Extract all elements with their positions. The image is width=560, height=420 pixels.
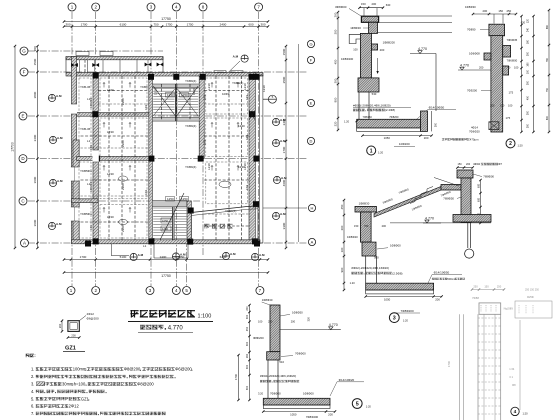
svg-text:1:20: 1:20 xyxy=(523,412,529,416)
svg-text:7Φ890: 7Φ890 xyxy=(467,28,476,32)
grid bubble 5 bottom xyxy=(183,287,191,295)
svg-text:320: 320 xyxy=(334,121,338,126)
svg-text:GZ1: GZ1 xyxy=(65,346,76,352)
grid bubble D left xyxy=(19,155,27,163)
svg-text:YKB5Φa: YKB5Φa xyxy=(80,169,92,173)
svg-text:2400: 2400 xyxy=(160,255,167,259)
svg-text:Φ14/10Φ20: Φ14/10Φ20 xyxy=(339,378,355,382)
interior beams vertical xyxy=(84,60,86,73)
GZ1 left dim xyxy=(61,321,63,332)
grid bubble E left xyxy=(19,112,27,120)
grid bubble H right xyxy=(308,204,315,211)
entrance porch below stair bay xyxy=(153,244,155,258)
grid line axis A xyxy=(28,242,307,244)
svg-text:200: 200 xyxy=(380,48,385,52)
svg-text:300: 300 xyxy=(435,122,438,127)
window boxes above wall G xyxy=(76,52,89,56)
svg-text:1:20: 1:20 xyxy=(403,319,409,323)
svg-text:470μm: 470μm xyxy=(470,137,479,141)
grid bubble E right xyxy=(307,99,314,106)
svg-text:2300: 2300 xyxy=(121,225,125,232)
svg-text:1250: 1250 xyxy=(167,93,174,97)
svg-text:750: 750 xyxy=(153,22,158,26)
stair landing upper xyxy=(152,84,199,88)
svg-text:1750: 1750 xyxy=(166,22,173,26)
svg-text:1Φ8Φ30: 1Φ8Φ30 xyxy=(359,202,370,206)
wall axis C stub xyxy=(72,199,99,203)
grid line axis 3 xyxy=(150,12,152,286)
svg-text:4Φ02: 4Φ02 xyxy=(473,162,481,166)
stair hall label xyxy=(204,224,209,229)
svg-text:500mm: 500mm xyxy=(447,277,456,281)
svg-text:1:20: 1:20 xyxy=(518,144,524,148)
svg-text:Φ8Φ200: Φ8Φ200 xyxy=(253,336,264,340)
svg-text:7Φ9200: 7Φ9200 xyxy=(467,89,477,93)
svg-text:E: E xyxy=(21,114,24,119)
svg-text:510: 510 xyxy=(279,360,284,364)
boxed labels xyxy=(166,93,175,98)
GZ1 bottom dim xyxy=(68,337,79,339)
svg-text:YKB5Φa: YKB5Φa xyxy=(80,212,92,216)
svg-text:7Φ8Φ200: 7Φ8Φ200 xyxy=(401,309,414,313)
upper flight break line xyxy=(434,178,459,187)
svg-text:7Φ88: 7Φ88 xyxy=(472,296,479,300)
svg-text:200: 200 xyxy=(33,46,37,51)
svg-text:760: 760 xyxy=(546,57,549,62)
detail 4 bubble xyxy=(511,407,519,415)
svg-text:1230: 1230 xyxy=(154,88,158,95)
svg-text:17750: 17750 xyxy=(161,17,171,21)
svg-text:200: 200 xyxy=(334,12,338,17)
svg-text:3300: 3300 xyxy=(282,222,286,229)
svg-text:1750: 1750 xyxy=(187,22,194,26)
svg-text:300: 300 xyxy=(527,80,530,85)
wall axis 8 xyxy=(199,76,204,159)
notes heading xyxy=(26,354,30,358)
svg-text:(2.4Φ8): (2.4Φ8) xyxy=(385,108,395,112)
svg-text:A.M: A.M xyxy=(57,179,63,183)
svg-text:450: 450 xyxy=(246,326,249,331)
svg-text:10Φ9: 10Φ9 xyxy=(222,92,230,96)
grid bubble C left xyxy=(19,197,27,205)
svg-text:2: 2 xyxy=(509,141,512,147)
svg-text:1250: 1250 xyxy=(162,227,169,231)
leader below wall A xyxy=(110,244,112,256)
beam bowtie marks xyxy=(71,63,78,67)
grid bubble 7 top xyxy=(255,3,263,11)
svg-text:1Φ3: 1Φ3 xyxy=(245,134,249,140)
svg-text:L230: L230 xyxy=(107,172,114,176)
svg-text:YKB9(4): YKB9(4) xyxy=(185,124,196,128)
svg-text:160: 160 xyxy=(340,247,344,252)
svg-text:300: 300 xyxy=(246,314,249,319)
svg-text:A.M: A.M xyxy=(280,212,286,216)
svg-text:L1: L1 xyxy=(143,244,147,248)
svg-text:7Φ8Φ200: 7Φ8Φ200 xyxy=(306,415,319,419)
svg-text:YKB9(4): YKB9(4) xyxy=(185,165,196,169)
svg-text:900: 900 xyxy=(334,97,338,102)
svg-text:4600: 4600 xyxy=(282,179,286,186)
hanger symbols bottom xyxy=(130,253,137,260)
svg-text:1050: 1050 xyxy=(162,219,169,223)
svg-text:1Φ3: 1Φ3 xyxy=(245,184,249,190)
svg-text:L230: L230 xyxy=(107,215,114,219)
svg-text:10Φ200: 10Φ200 xyxy=(399,142,410,146)
detail 2 section xyxy=(442,5,550,141)
svg-text:900: 900 xyxy=(340,267,344,272)
svg-text:2.: 2. xyxy=(31,374,34,379)
hanger symbols left xyxy=(48,94,55,101)
detail 2 bubble xyxy=(506,139,515,148)
svg-text:7Φ8Φ00: 7Φ8Φ00 xyxy=(270,391,281,395)
svg-text:300: 300 xyxy=(260,22,265,26)
right dimension segments xyxy=(285,46,287,248)
grid line axis C xyxy=(28,200,200,202)
plan title xyxy=(130,310,138,318)
svg-text:GZ1: GZ1 xyxy=(81,396,90,401)
stair treads upper xyxy=(153,88,174,90)
svg-text:1250: 1250 xyxy=(167,197,174,201)
svg-text:1050: 1050 xyxy=(384,136,391,140)
svg-text:Φ8: Φ8 xyxy=(512,383,516,387)
grid bubble G left xyxy=(20,47,28,55)
grid line axis 8 xyxy=(202,12,204,255)
grid bubble 1 top xyxy=(68,3,76,11)
grid line axis F xyxy=(28,71,307,73)
svg-text:660: 660 xyxy=(546,24,549,29)
svg-text:Φ7: Φ7 xyxy=(498,162,502,166)
svg-text:YKB9(4): YKB9(4) xyxy=(225,209,236,213)
columns xyxy=(93,73,99,79)
detail 3 section xyxy=(340,170,495,313)
svg-text:100: 100 xyxy=(258,320,263,324)
svg-text:150: 150 xyxy=(498,9,503,13)
svg-text:L230: L230 xyxy=(243,83,247,90)
svg-text:7Φ8Φ00: 7Φ8Φ00 xyxy=(295,352,306,356)
svg-text:4.770: 4.770 xyxy=(329,323,338,327)
left dimension overall xyxy=(14,46,16,248)
grid bubble 2 bottom xyxy=(92,287,100,295)
svg-text:250 150 250: 250 150 250 xyxy=(525,289,540,292)
grid bubble A right xyxy=(308,238,315,245)
grid bubble G right xyxy=(307,40,314,47)
svg-text:200: 200 xyxy=(424,136,429,140)
detail 1 section xyxy=(334,2,456,146)
svg-text:320: 320 xyxy=(307,317,311,322)
svg-text:150: 150 xyxy=(361,2,366,6)
svg-text:3800: 3800 xyxy=(33,91,37,98)
svg-text:Φ25Φ: Φ25Φ xyxy=(527,296,534,299)
svg-text:D: D xyxy=(310,138,313,143)
svg-text:1Φ3: 1Φ3 xyxy=(245,94,249,100)
svg-text:100: 100 xyxy=(514,66,519,70)
wall axis E segment west xyxy=(77,113,94,117)
svg-text:600: 600 xyxy=(477,197,480,202)
svg-text:250: 250 xyxy=(268,320,273,324)
svg-text:100: 100 xyxy=(527,69,530,74)
svg-text:30mm: 30mm xyxy=(62,382,74,387)
svg-text:900: 900 xyxy=(246,385,249,390)
svg-text:300: 300 xyxy=(527,110,530,115)
slab panel dashed outlines xyxy=(100,78,147,114)
svg-text:250: 250 xyxy=(506,9,511,13)
svg-text:L230: L230 xyxy=(243,163,247,170)
svg-text:A.M: A.M xyxy=(280,118,286,122)
svg-text:A.M: A.M xyxy=(280,139,286,143)
detail 3 bubble xyxy=(389,313,399,323)
svg-text:450: 450 xyxy=(340,204,344,209)
stair center beam upper xyxy=(175,84,177,121)
svg-text:A: A xyxy=(311,239,314,244)
svg-text:7Φ8150: 7Φ8150 xyxy=(363,115,373,119)
grid line axis 2 xyxy=(95,12,97,286)
bottom dimension overall xyxy=(64,272,268,274)
wall G end return xyxy=(162,57,164,73)
grid line axis H right xyxy=(263,207,307,209)
grid bubble 8 top xyxy=(199,3,207,11)
svg-text:250: 250 xyxy=(473,285,478,289)
svg-text:7.: 7. xyxy=(31,411,34,416)
svg-text:200: 200 xyxy=(382,224,387,228)
svg-text:200: 200 xyxy=(246,306,249,311)
svg-text:200: 200 xyxy=(435,298,440,302)
svg-text:A.M: A.M xyxy=(138,253,144,257)
svg-text:600: 600 xyxy=(248,22,253,26)
svg-text:Φ6@200: Φ6@200 xyxy=(175,367,192,372)
svg-text:2300: 2300 xyxy=(121,183,125,190)
svg-text:A: A xyxy=(23,241,26,246)
svg-text:3.20: 3.20 xyxy=(258,391,264,395)
svg-text:100: 100 xyxy=(500,103,505,107)
svg-text:YKB-36: YKB-36 xyxy=(80,127,91,131)
svg-text:200: 200 xyxy=(328,412,333,416)
svg-text:300: 300 xyxy=(246,364,249,369)
svg-text:450: 450 xyxy=(334,59,338,64)
svg-text:100: 100 xyxy=(353,48,358,52)
svg-text:630: 630 xyxy=(386,3,391,7)
svg-text:175: 175 xyxy=(506,116,511,120)
svg-text:240: 240 xyxy=(527,27,530,32)
svg-text:A.M: A.M xyxy=(230,252,236,256)
svg-text:150: 150 xyxy=(458,163,463,166)
grid line axis D xyxy=(28,158,307,160)
GZ1 column section xyxy=(68,321,79,332)
svg-text:1Φ8Φ200: 1Φ8Φ200 xyxy=(383,40,396,44)
svg-text:120: 120 xyxy=(527,18,530,23)
svg-text:2500: 2500 xyxy=(282,76,286,83)
svg-text:6100: 6100 xyxy=(120,22,127,26)
svg-text:300: 300 xyxy=(527,123,530,128)
grid line axis 5 xyxy=(186,240,188,286)
balcony partitions xyxy=(78,60,80,73)
svg-text:1250: 1250 xyxy=(181,197,188,201)
svg-text:1230: 1230 xyxy=(192,88,196,95)
svg-text:1700: 1700 xyxy=(234,373,238,380)
svg-text:1Φ3: 1Φ3 xyxy=(144,189,148,195)
svg-text:3.: 3. xyxy=(31,382,34,387)
wall openings left wall xyxy=(71,167,80,181)
svg-text:1500: 1500 xyxy=(33,58,37,65)
hanger symbol top xyxy=(241,55,248,62)
svg-text:3 1: 3 1 xyxy=(509,375,513,379)
grid bubble 7 bottom xyxy=(256,287,264,295)
svg-text:200: 200 xyxy=(490,103,495,107)
detail 5 section xyxy=(234,298,364,419)
stair landing slab detail 3 xyxy=(441,185,461,191)
svg-text:2400: 2400 xyxy=(220,22,227,26)
svg-text:Nφ2Φ9: Nφ2Φ9 xyxy=(504,306,514,310)
grid bubble F right xyxy=(307,56,314,63)
svg-text:A.M: A.M xyxy=(281,176,287,180)
svg-text:1500: 1500 xyxy=(282,48,286,55)
extra slab arrows and marks xyxy=(103,83,105,88)
wall axis 7 xyxy=(249,73,255,244)
svg-text:L230: L230 xyxy=(207,83,211,90)
svg-text:L230: L230 xyxy=(107,130,114,134)
svg-text:1050: 1050 xyxy=(290,412,297,416)
section circle right of plan xyxy=(268,95,276,103)
svg-text:5.: 5. xyxy=(31,396,34,401)
svg-text:1230: 1230 xyxy=(262,85,266,92)
svg-text:1Φ8Φ30: 1Φ8Φ30 xyxy=(350,26,361,30)
stair landing lower xyxy=(152,201,187,207)
svg-text:1230: 1230 xyxy=(238,124,245,128)
svg-text:F: F xyxy=(23,70,26,75)
stair arrow diagonal lower xyxy=(160,193,184,240)
svg-text:1:20: 1:20 xyxy=(366,405,372,409)
svg-text:Φ6@200: Φ6@200 xyxy=(87,316,99,320)
svg-text:100: 100 xyxy=(508,103,513,107)
svg-text:4.770: 4.770 xyxy=(168,326,184,332)
svg-text:1Φ8Φ30: 1Φ8Φ30 xyxy=(262,298,273,302)
svg-text:1: 1 xyxy=(370,148,373,154)
svg-text:100mm: 100mm xyxy=(73,367,87,372)
wall axis D stub xyxy=(77,157,149,161)
grid bubble 3 top xyxy=(147,3,155,11)
fixture ellipse 2 xyxy=(119,219,128,224)
svg-text:600: 600 xyxy=(477,183,480,188)
svg-text:450: 450 xyxy=(527,95,530,100)
detail 5 bubble xyxy=(352,399,362,409)
svg-text:1:100: 1:100 xyxy=(198,314,212,320)
note 3 hatch swatch xyxy=(37,382,45,386)
svg-text:1700: 1700 xyxy=(80,255,87,259)
svg-text:300: 300 xyxy=(334,29,338,34)
stair landing mid xyxy=(152,117,199,121)
svg-text:7Φ6Φ35: 7Φ6Φ35 xyxy=(507,38,518,42)
svg-text:1.20: 1.20 xyxy=(350,281,356,285)
svg-text:1Φ8Φ00: 1Φ8Φ00 xyxy=(390,244,401,248)
svg-text:750: 750 xyxy=(364,224,369,228)
GZ1 leader xyxy=(79,316,86,321)
svg-text:1Φ8Φ50: 1Φ8Φ50 xyxy=(292,310,303,314)
svg-text:1Φ6Φ08: 1Φ6Φ08 xyxy=(469,52,480,56)
svg-text:L230: L230 xyxy=(207,163,211,170)
top dimension segments xyxy=(64,26,268,28)
svg-text:250: 250 xyxy=(497,285,502,289)
svg-text:160: 160 xyxy=(527,62,530,67)
bottom dimension segments xyxy=(64,259,268,261)
grid bubble 4 bottom xyxy=(172,287,180,295)
svg-text:2300: 2300 xyxy=(121,140,125,147)
svg-text:3Φ8Φ00: 3Φ8Φ00 xyxy=(335,5,347,9)
svg-text:4.770: 4.770 xyxy=(418,47,427,51)
svg-text:A.M: A.M xyxy=(180,253,186,257)
svg-text:L1: L1 xyxy=(87,139,91,143)
svg-text:Φ8@200: Φ8@200 xyxy=(137,382,154,387)
svg-text:A.M: A.M xyxy=(56,94,62,98)
svg-text:1Φ3: 1Φ3 xyxy=(144,104,148,110)
svg-text:2400: 2400 xyxy=(33,134,37,141)
svg-text:#Φ02(-20Φ420,4Φ6,16Φ20): #Φ02(-20Φ420,4Φ6,16Φ20) xyxy=(351,266,389,270)
grid line axis 1 xyxy=(71,12,73,286)
svg-text:200: 200 xyxy=(466,163,471,166)
svg-text:300: 300 xyxy=(340,225,344,230)
svg-text:17750: 17750 xyxy=(161,274,171,278)
wall left outer xyxy=(72,57,77,244)
svg-text:1:20: 1:20 xyxy=(378,151,384,155)
svg-text:1.20: 1.20 xyxy=(344,119,350,123)
svg-text:1Φ8Φ00: 1Φ8Φ00 xyxy=(303,391,314,395)
stair boxed labels lower xyxy=(161,218,171,223)
svg-text:1700: 1700 xyxy=(447,360,451,367)
svg-text:A.M: A.M xyxy=(259,253,265,257)
svg-text:200: 200 xyxy=(479,66,484,70)
svg-text:A.M: A.M xyxy=(233,55,239,59)
svg-text:7Φ8Φ00: 7Φ8Φ00 xyxy=(483,175,494,179)
wall axis 3 xyxy=(149,76,153,243)
grid bubble 3 bottom xyxy=(146,287,154,295)
svg-text:Φ14/10Φ50: Φ14/10Φ50 xyxy=(429,106,445,110)
svg-text:1250: 1250 xyxy=(181,93,188,97)
svg-text:4.: 4. xyxy=(31,389,34,394)
svg-text:750: 750 xyxy=(546,87,549,92)
svg-text:h=100: h=100 xyxy=(74,382,86,387)
svg-text:3600: 3600 xyxy=(33,219,37,226)
wall axis 5 lower xyxy=(187,201,191,241)
left dimension segments xyxy=(37,46,39,248)
wall junction X at E xyxy=(249,110,255,120)
svg-text:G: G xyxy=(309,41,312,46)
svg-text:160: 160 xyxy=(527,39,530,44)
wall axis E segment mid xyxy=(98,113,149,117)
svg-text:H: H xyxy=(311,205,314,210)
svg-text:200: 200 xyxy=(58,323,62,328)
svg-text:4.770: 4.770 xyxy=(425,217,434,221)
right bubble column line xyxy=(297,44,299,242)
svg-text:L230: L230 xyxy=(107,88,114,92)
window marks on wall F right xyxy=(214,71,226,73)
svg-text:1050: 1050 xyxy=(384,298,391,302)
svg-text:7Φ8Φ50: 7Φ8Φ50 xyxy=(443,197,454,201)
svg-text:150: 150 xyxy=(354,224,359,228)
grid line axis 4 xyxy=(175,12,177,286)
svg-text:5: 5 xyxy=(356,401,359,407)
svg-text:4.770: 4.770 xyxy=(460,64,469,68)
wall left lower widened xyxy=(73,140,79,243)
wall axis 2 xyxy=(93,73,98,244)
svg-text:17700: 17700 xyxy=(11,142,15,152)
svg-text:200: 200 xyxy=(372,2,377,6)
svg-text:1Φ8Φ30: 1Φ8Φ30 xyxy=(465,5,476,9)
detail 1 bubble xyxy=(367,146,376,155)
svg-text:7Φ8200: 7Φ8200 xyxy=(389,115,399,119)
svg-text:200: 200 xyxy=(291,320,296,324)
svg-text:#Φ02(-20Φ420,4Φ6,16Φ20): #Φ02(-20Φ420,4Φ6,16Φ20) xyxy=(353,103,391,107)
svg-text:530: 530 xyxy=(372,92,377,96)
svg-text:G: G xyxy=(22,49,26,54)
fixture ellipse 3 xyxy=(219,181,231,187)
